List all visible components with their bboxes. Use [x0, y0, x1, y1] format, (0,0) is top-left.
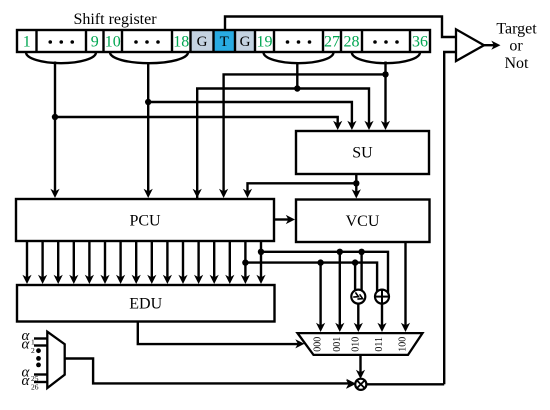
svg-text:α: α: [22, 373, 31, 389]
svg-text:100: 100: [398, 337, 409, 352]
svg-text:9: 9: [91, 34, 99, 51]
svg-text:1: 1: [23, 34, 31, 51]
svg-text:T: T: [220, 34, 229, 50]
svg-text:26: 26: [31, 382, 39, 391]
svg-text:28: 28: [344, 34, 360, 51]
svg-text:VCU: VCU: [346, 213, 380, 230]
svg-text:Shift register: Shift register: [73, 11, 157, 28]
svg-text:001: 001: [332, 337, 343, 352]
svg-text:2: 2: [31, 346, 35, 355]
svg-text:G: G: [197, 34, 208, 50]
svg-text:EDU: EDU: [129, 296, 162, 313]
svg-text:α: α: [22, 336, 31, 352]
svg-text:Target: Target: [496, 21, 537, 38]
svg-text:36: 36: [412, 34, 428, 51]
svg-text:011: 011: [374, 337, 385, 352]
svg-text:27: 27: [324, 34, 340, 51]
svg-text:10: 10: [105, 34, 121, 51]
svg-text:19: 19: [257, 34, 273, 51]
svg-text:PCU: PCU: [129, 213, 161, 230]
svg-text:SU: SU: [352, 145, 373, 162]
svg-text:Not: Not: [505, 55, 530, 72]
svg-text:18: 18: [173, 34, 189, 51]
svg-text:G: G: [240, 34, 251, 50]
svg-text:or: or: [509, 38, 523, 55]
svg-text:010: 010: [350, 337, 361, 352]
svg-text:000: 000: [313, 337, 324, 352]
